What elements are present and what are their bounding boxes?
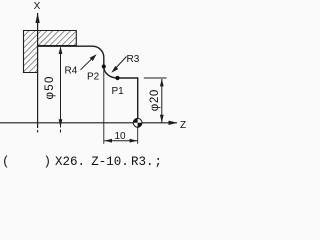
extension line Z-10 — [103, 69, 105, 144]
Z axis (centerline) — [0, 122, 177, 124]
svg-text:φ50: φ50 — [44, 75, 56, 99]
svg-text:P2: P2 — [87, 72, 100, 83]
dimension phi20 — [144, 77, 167, 79]
node P2 — [102, 64, 106, 68]
node P1 — [115, 76, 119, 80]
svg-text:;: ; — [155, 155, 163, 169]
chuck block (hatched L-shape) — [24, 31, 77, 73]
svg-text:R3: R3 — [127, 54, 140, 65]
leader R3 — [113, 57, 127, 72]
svg-text:R3.: R3. — [131, 155, 154, 169]
origin symbol — [133, 118, 142, 127]
svg-text:P1: P1 — [112, 86, 125, 97]
X axis — [37, 13, 39, 128]
svg-text:10: 10 — [114, 131, 126, 142]
svg-text:X26.: X26. — [55, 155, 85, 169]
svg-text:Z-10.: Z-10. — [91, 155, 129, 169]
leader R4 — [81, 55, 96, 70]
svg-text:X: X — [34, 1, 41, 12]
program text — [2, 155, 162, 169]
svg-text:(: ( — [2, 155, 10, 169]
svg-text:R4: R4 — [65, 66, 78, 77]
dimension 10 — [104, 140, 137, 142]
svg-text:Z: Z — [180, 120, 186, 131]
workpiece profile — [38, 46, 138, 128]
dimension phi50 — [60, 48, 62, 128]
svg-text:φ20: φ20 — [149, 89, 161, 111]
extension below origin — [137, 128, 139, 144]
svg-text:): ) — [44, 155, 52, 169]
